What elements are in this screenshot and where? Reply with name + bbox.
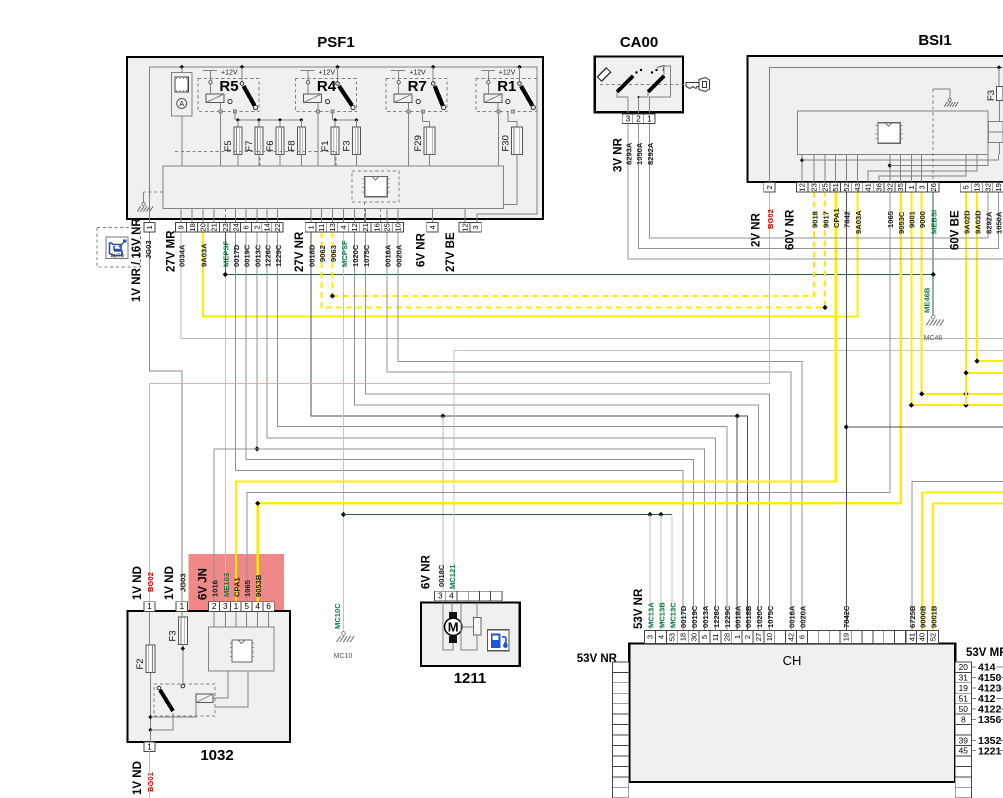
svg-text:21: 21 [361,223,370,231]
fuse F7 [255,127,263,155]
ground MC10 [342,632,346,636]
svg-text:9A03A: 9A03A [854,210,863,234]
svg-text:9001B: 9001B [930,605,939,628]
svg-text:25: 25 [821,183,830,191]
svg-text:0013A: 0013A [701,605,710,628]
svg-text:9000: 9000 [918,211,927,228]
svg-text:23: 23 [810,183,819,191]
svg-text:F29: F29 [413,135,424,151]
fuse F3 [178,617,187,645]
svg-text:0017D: 0017D [232,244,241,267]
wire 7842 / 7842C BSI1 to CH [845,192,847,630]
relay R5 coil [206,94,224,103]
svg-text:9018: 9018 [810,211,819,228]
svg-text:0020A: 0020A [394,244,403,267]
svg-text:1221: 1221 [978,745,1002,757]
wire JG03 PSF1 pin1 to 1032 [150,232,182,601]
svg-text:F3: F3 [342,140,353,151]
relay R5 +12V supply tick [203,70,217,72]
wire BG02 BSI1 to 1032 [150,192,770,601]
PSF1 logic strip [163,166,504,209]
svg-text:F3: F3 [986,90,997,101]
svg-text:BG02: BG02 [146,572,155,592]
wire ME46B to ground MC46 [932,275,934,316]
svg-text:13: 13 [973,183,982,191]
wire BG01 off page [149,752,151,798]
svg-text:3: 3 [626,113,631,123]
svg-text:MEBSI: MEBSI [930,210,939,234]
svg-text:6V NR: 6V NR [421,554,433,589]
svg-text:23: 23 [221,223,230,231]
svg-text:1V ND: 1V ND [164,566,176,600]
svg-text:1211: 1211 [454,670,487,687]
svg-text:1229C: 1229C [723,605,732,628]
svg-text:ME46B: ME46B [923,287,932,313]
wire R5 coil to logic strip [219,113,221,166]
fuse F8 [297,127,305,155]
svg-text:4: 4 [428,225,437,229]
svg-text:13: 13 [328,223,337,231]
svg-text:9000B: 9000B [918,605,927,628]
svg-text:+12V: +12V [499,70,516,77]
fuse F3 inside BSI1 [998,68,1000,87]
relay 1032 blade [181,684,185,688]
BSI1 right edge connector stubs [989,121,1003,132]
wire 0017D [236,232,683,630]
svg-text:53V NR: 53V NR [633,588,645,629]
CH right pin column [955,662,971,672]
wire 9062 dashed [322,192,825,307]
1032 internal wires [151,703,197,718]
dashed routing inside PSF1 [175,151,336,153]
svg-text:0016A: 0016A [787,605,796,628]
wire CPA1 BSI1 to 1032 [236,192,836,601]
svg-text:1016: 1016 [211,580,220,597]
IC chip symbol inside 1032 [232,640,252,662]
svg-text:6: 6 [266,601,271,611]
fuse F6 [276,127,284,155]
wire 0013C / 1016 / 0013A [256,232,258,449]
motor symbol M [443,603,453,651]
svg-text:20: 20 [199,223,208,231]
diagnostic tool icon [106,237,128,258]
svg-text:6725B: 6725B [908,605,917,628]
svg-text:F5: F5 [223,140,234,151]
relay R7 switch blade [435,86,443,106]
svg-text:60V BE: 60V BE [950,210,962,250]
relay R5 dashed enclosure [198,79,259,112]
wires fuses F1,F3 to logic strip [334,155,336,167]
MEBSI dashed link inside BSI1 [932,89,934,182]
svg-text:0019C: 0019C [242,244,251,267]
fuse F29 [424,127,435,155]
wire 7842C branch right [846,426,1003,428]
wire F29 to logic strip [428,155,430,167]
svg-text:1: 1 [307,225,316,229]
svg-text:42: 42 [787,633,796,641]
svg-text:2V NR: 2V NR [751,212,763,247]
relay R4 switch blade [339,86,352,106]
relay R1 coil [484,94,502,103]
svg-text:MC13C: MC13C [668,602,677,628]
svg-text:1356: 1356 [978,714,1002,726]
svg-text:6V JN: 6V JN [198,568,210,600]
wire R7 coil to logic strip [408,113,410,166]
svg-text:2: 2 [212,601,217,611]
svg-text:30: 30 [689,633,698,641]
svg-text:1: 1 [145,225,154,229]
wire 1226C [267,232,715,630]
svg-text:F30: F30 [500,135,511,151]
fuse F2 [146,645,155,673]
svg-text:F8: F8 [286,140,297,151]
wire 0016A [387,232,791,630]
wire 9053C / 9053B BSI1 to 1032 [258,192,901,601]
IC chip symbol inside BSI1 [878,123,900,144]
svg-text:41: 41 [907,633,916,641]
CA00 internal dashed axis [600,84,689,86]
svg-text:41: 41 [864,183,873,191]
wire MC13 bus to CH [344,514,672,516]
svg-text:43: 43 [853,183,862,191]
CA00 pin row [622,114,633,124]
svg-text:MC46: MC46 [924,335,943,342]
svg-text:1: 1 [647,113,652,123]
BSI1 elbow links [801,155,803,183]
svg-text:9001: 9001 [908,210,917,228]
wire 9001 [911,192,1003,405]
svg-text:0019C: 0019C [690,605,699,628]
svg-text:CPA1: CPA1 [233,577,242,597]
svg-text:12: 12 [460,223,469,231]
svg-text:9A02D: 9A02D [962,210,971,234]
svg-text:R4: R4 [317,78,337,95]
wire 9063 dashed [331,232,333,296]
svg-text:0020A: 0020A [798,605,807,628]
wire 1020C [355,232,759,630]
relay R7 switch riser from bus [432,67,434,82]
svg-text:36: 36 [875,183,884,191]
svg-text:M: M [448,620,459,635]
relay R4 +12V supply tick [301,70,315,72]
wire MC13C riser [671,515,673,631]
svg-text:53V MR: 53V MR [966,647,1003,659]
svg-text:4: 4 [657,635,666,639]
relay R7 coil [394,94,412,103]
svg-text:ME103: ME103 [222,573,231,597]
wire 0018D / 0018A / 0018B [311,232,747,630]
electronic module U-PSF [171,73,192,116]
relay R1 switch riser from bus [519,67,521,82]
relay R1 +12V supply tick [481,70,495,72]
svg-text:27V MR: 27V MR [166,230,178,272]
svg-text:20: 20 [959,662,969,672]
BSI1 pin links [813,155,815,183]
svg-text:MC10: MC10 [334,653,353,660]
svg-text:MC121: MC121 [448,564,457,589]
dashed IC enclosure inside PSF1 [352,171,399,202]
svg-text:40: 40 [918,633,927,641]
ignition switch CA00 outline [595,57,683,113]
wire R4 output to fuse bus [332,112,334,121]
wire PSF1 internal +12V top bus [150,67,537,231]
svg-text:5: 5 [244,601,249,611]
fuse F3 [353,127,361,155]
BSI1 pin row [764,183,775,193]
wire 0019C [246,232,694,630]
wire MC13B riser [660,515,662,631]
svg-text:1075C: 1075C [362,244,371,267]
svg-text:CPA1: CPA1 [832,208,841,228]
connector highlight 6V JN [189,554,285,627]
BSI1 logic strip [798,111,988,155]
1211 pin row [435,591,446,601]
wire R7 output jog to F29 [423,112,430,128]
svg-text:1226C: 1226C [712,605,721,628]
svg-text:12: 12 [350,223,359,231]
body controller BSI1 outline [748,56,1003,182]
svg-text:6: 6 [798,635,807,639]
svg-text:1032: 1032 [200,747,233,764]
svg-text:27V NR: 27V NR [294,231,306,272]
svg-text:4: 4 [255,601,260,611]
wire MC13A riser [649,515,651,631]
fuse/relay box PSF1 outline [127,57,543,219]
svg-text:19: 19 [959,683,969,693]
svg-text:8293A: 8293A [625,142,634,165]
svg-text:CA00: CA00 [620,34,658,51]
relay R1 switch blade [521,86,532,106]
svg-text:3: 3 [223,601,228,611]
svg-text:1065: 1065 [886,210,895,228]
svg-text:1050A: 1050A [635,142,644,165]
svg-text:CH: CH [783,653,802,668]
svg-text:9: 9 [177,225,186,229]
svg-text:F6: F6 [265,140,276,151]
svg-text:0034A: 0034A [178,244,187,267]
svg-text:0018B: 0018B [744,605,753,628]
svg-text:0018C: 0018C [437,564,446,587]
PSF1 internal solid pin links [180,209,182,223]
svg-text:5: 5 [962,185,971,189]
svg-text:MCPSF: MCPSF [340,240,349,267]
svg-text:PSF1: PSF1 [317,34,355,51]
svg-text:F3: F3 [167,630,178,641]
svg-text:1075C: 1075C [766,605,775,628]
svg-text:+12V: +12V [221,70,238,77]
wire F30 to pin 12 of 27V BE [465,155,517,223]
wire MCPSF to ground MC10 and MC13 bus [343,232,345,632]
svg-text:4: 4 [449,591,454,601]
wire 1075C [366,232,770,630]
svg-text:1226C: 1226C [263,244,272,267]
svg-text:27V BE: 27V BE [445,232,457,272]
fuel pump 1211 outline [421,603,520,667]
svg-text:AUTO: AUTO [111,254,125,260]
svg-text:9063: 9063 [329,245,338,262]
svg-text:4: 4 [339,225,348,229]
svg-text:27: 27 [754,633,763,641]
body harness CH outline [629,643,955,782]
wire 8292A CA00 to BSI1 [649,124,988,239]
svg-text:BSI1: BSI1 [918,32,951,49]
svg-text:1229C: 1229C [274,244,283,267]
wire MEPSF / ME103 vertical [224,232,226,274]
svg-text:6V NR: 6V NR [416,232,428,267]
relay R4 dashed enclosure [296,79,357,112]
svg-text:45: 45 [959,746,969,756]
svg-text:11: 11 [317,224,326,232]
wire MEBSI drop [932,192,934,274]
BSI1 internal top wire BG02 feed [769,68,1003,183]
svg-text:1V ND: 1V ND [132,566,144,600]
svg-text:1: 1 [234,601,239,611]
svg-text:R1: R1 [497,78,516,95]
svg-text:10: 10 [765,633,774,641]
svg-text:9062: 9062 [318,245,327,262]
BSI1 internal ground branch [933,89,950,99]
fuse F3 inside 1032 [181,611,183,617]
svg-text:1: 1 [147,601,152,611]
svg-text:2: 2 [253,225,262,229]
PSF1 internal dashed pin links [224,209,226,223]
svg-text:MC10C: MC10C [333,603,342,629]
IC chip symbol inside PSF1 [365,177,387,197]
relay R1 dashed enclosure [476,79,537,112]
svg-text:1050A: 1050A [995,211,1003,234]
svg-text:+12V: +12V [319,70,336,77]
svg-text:0016A: 0016A [383,244,392,267]
wire 0020A [398,232,802,630]
wire 9000 [922,192,1003,394]
svg-text:1: 1 [147,741,152,751]
fuse F2 inside 1032 [149,611,151,645]
wire 9A03A PSF1 to BSI1 [203,192,858,316]
ground symbol inside PSF1 [144,191,163,193]
wire 1050A CA00 to BSI1 [639,124,999,249]
svg-text:9053C: 9053C [897,211,906,234]
CH top pin row [645,631,656,644]
svg-text:2: 2 [765,185,774,189]
1032 bottom pin [144,742,155,752]
svg-text:19: 19 [841,633,850,641]
svg-text:3V NR: 3V NR [613,137,625,172]
wire R4 coil to logic strip [317,113,319,166]
CA00 switch blade 2 [648,76,664,92]
svg-text:8: 8 [961,714,966,724]
CH right side net labels [972,666,977,668]
svg-text:18: 18 [188,223,197,231]
fuel pump icon [487,630,509,651]
fuse F30 [511,127,522,155]
svg-text:52: 52 [929,633,938,641]
svg-text:1020C: 1020C [351,244,360,267]
1032 pin row top [144,602,155,612]
svg-text:1065: 1065 [243,579,252,597]
svg-text:11: 11 [711,633,720,641]
CA00 internal wires [617,92,628,113]
svg-text:JG03: JG03 [144,240,153,259]
svg-text:MC13A: MC13A [646,602,655,628]
CA00 key contact symbol [597,68,610,81]
svg-text:53: 53 [668,633,677,641]
svg-text:1020C: 1020C [755,605,764,628]
wire MC121 from right to 1211 [454,350,1003,591]
wire 9001B [933,503,1003,630]
svg-text:1V ND: 1V ND [132,761,144,795]
svg-text:3: 3 [438,591,443,601]
svg-text:9A03D: 9A03D [973,210,982,234]
svg-text:14: 14 [263,223,272,231]
svg-text:6: 6 [242,225,251,229]
svg-text:8292A: 8292A [984,211,993,234]
svg-text:5: 5 [700,635,709,639]
svg-text:51: 51 [831,183,840,191]
fuse F5 [234,127,242,155]
relay R7 dashed enclosure [386,79,447,112]
svg-text:28: 28 [722,633,731,641]
svg-text:52: 52 [842,183,851,191]
svg-text:BG01: BG01 [146,771,155,792]
svg-text:18: 18 [678,633,687,641]
wire module to logic strip [181,116,183,166]
svg-text:16: 16 [373,223,382,231]
svg-text:7842C: 7842C [842,605,851,628]
svg-text:9053B: 9053B [254,574,263,597]
svg-text:24: 24 [231,223,240,231]
svg-text:12: 12 [798,183,807,191]
svg-text:9017: 9017 [821,211,830,228]
svg-text:32: 32 [885,183,894,191]
svg-text:19: 19 [994,183,1003,191]
wires fuses F5-F8 to logic strip [237,155,239,167]
1032 logic box [209,627,274,671]
svg-text:1: 1 [907,185,916,189]
svg-text:31: 31 [959,673,969,683]
svg-text:F1: F1 [320,140,331,151]
svg-text:39: 39 [959,735,969,745]
svg-text:60V NR: 60V NR [785,209,797,250]
svg-text:10: 10 [394,223,403,231]
wire R1 output jog to F30 [508,112,517,128]
fuse F1 [331,127,339,155]
wire 9A02D [965,192,967,405]
svg-text:MEPSF: MEPSF [222,240,231,267]
svg-text:2: 2 [636,113,641,123]
wire 6725B [912,482,1003,631]
svg-text:21: 21 [209,223,218,231]
wire R5 output to fuse bus [234,112,236,121]
wire 1065 BSI1 to 1032 [247,192,890,601]
wire module to top bus [181,67,183,73]
wire 9000B [922,493,1003,631]
svg-text:R7: R7 [408,78,427,95]
svg-text:3: 3 [646,635,655,639]
svg-text:A: A [179,101,184,108]
ground MC46 [931,315,935,319]
svg-text:F7: F7 [244,140,255,151]
relay R4 coil [304,94,322,103]
svg-text:25: 25 [383,223,392,231]
relay R7 +12V supply tick [391,70,405,72]
svg-text:F2: F2 [135,658,146,669]
svg-text:3: 3 [917,185,926,189]
wire 0034A [181,232,1003,339]
svg-text:0018D: 0018D [307,244,316,267]
sender resistor in 1211 [474,618,481,635]
svg-text:0018A: 0018A [734,605,743,628]
svg-text:0013C: 0013C [253,244,262,267]
